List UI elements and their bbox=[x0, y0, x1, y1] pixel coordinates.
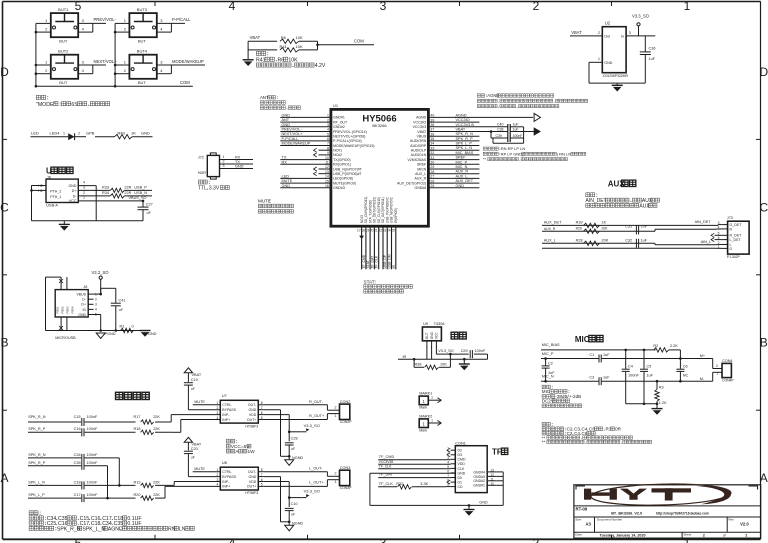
svg-text:C40: C40 bbox=[497, 123, 503, 127]
svg-text:XC6206P332MR: XC6206P332MR bbox=[603, 74, 629, 78]
svg-text:1uF: 1uF bbox=[548, 371, 555, 375]
wire BUT4 pins bbox=[115, 64, 129, 66]
logo HYT swoosh bbox=[591, 482, 731, 506]
svg-text:22K: 22K bbox=[153, 427, 160, 431]
svg-text:R33: R33 bbox=[102, 185, 109, 189]
svg-text:ANT: ANT bbox=[282, 118, 290, 122]
resistor R29 bbox=[584, 229, 600, 233]
svg-text:Document Number: Document Number bbox=[597, 517, 622, 521]
svg-text:R: R bbox=[730, 227, 733, 231]
svg-text:7: 7 bbox=[261, 473, 263, 477]
svg-text:http://shop792402716.taobao.co: http://shop792402716.taobao.com bbox=[656, 511, 709, 515]
wire MIC_N row bbox=[541, 380, 599, 382]
svg-text:1uF: 1uF bbox=[641, 224, 648, 228]
svg-text:VCC3IO: VCC3IO bbox=[413, 120, 426, 124]
svg-text:RT-09: RT-09 bbox=[576, 507, 588, 512]
svg-text:AGND: AGND bbox=[456, 113, 467, 117]
wire j73 connections bbox=[715, 224, 719, 226]
resistor R6 bbox=[280, 39, 299, 43]
wire VBAT to C38 and speaker arrow bbox=[428, 131, 507, 133]
svg-text:GND#2: GND#2 bbox=[473, 479, 485, 483]
capacitor C31 bbox=[635, 225, 637, 234]
svg-text:TX(GPIO0): TX(GPIO0) bbox=[333, 158, 351, 162]
svg-text:VDD: VDD bbox=[249, 413, 257, 417]
svg-text:BUT3: BUT3 bbox=[137, 7, 148, 12]
svg-text:1uF: 1uF bbox=[603, 353, 610, 357]
svg-text:VCC3V3 B: VCC3V3 B bbox=[456, 123, 475, 127]
svg-text:1: 1 bbox=[63, 132, 65, 136]
svg-text:100nF: 100nF bbox=[87, 461, 98, 465]
svg-text:GPB: GPB bbox=[86, 131, 95, 136]
resistor R3 vertical bbox=[656, 381, 658, 389]
svg-text:BUT: BUT bbox=[59, 80, 68, 85]
svg-text:SPK_L_N: SPK_L_N bbox=[82, 526, 105, 532]
wire VCC3IO bbox=[428, 121, 479, 123]
svg-text:INP-: INP- bbox=[222, 480, 230, 484]
svg-text:V3.3_SO: V3.3_SO bbox=[304, 423, 320, 428]
svg-text:R29: R29 bbox=[576, 227, 582, 231]
svg-text:CD: CD bbox=[458, 485, 464, 489]
svg-text:AGND: AGND bbox=[416, 116, 427, 120]
svg-text:CTRL: CTRL bbox=[222, 403, 231, 407]
svg-text:MODE/WAKEUP: MODE/WAKEUP bbox=[172, 59, 204, 64]
svg-text:10K: 10K bbox=[440, 362, 447, 366]
svg-text:G: G bbox=[730, 247, 733, 251]
svg-text:3.3V: 3.3V bbox=[209, 186, 220, 192]
svg-text:GND: GND bbox=[458, 471, 466, 475]
svg-text:J8: J8 bbox=[83, 285, 87, 289]
svg-text:22K: 22K bbox=[153, 415, 160, 419]
svg-text:C39: C39 bbox=[496, 134, 502, 138]
svg-text:5: 5 bbox=[261, 416, 263, 420]
svg-text:SPK_L_N: SPK_L_N bbox=[456, 146, 473, 150]
wire COM junction bbox=[317, 41, 319, 50]
svg-text:VBUS: VBUS bbox=[417, 135, 427, 139]
svg-text:BUT: BUT bbox=[138, 80, 147, 85]
power VBAT U8 bbox=[184, 437, 192, 442]
svg-text:AUX_R: AUX_R bbox=[456, 170, 469, 174]
svg-text:PREV/VOL-: PREV/VOL- bbox=[94, 17, 117, 22]
note speaker config bbox=[29, 511, 33, 515]
svg-text:GND#2: GND#2 bbox=[333, 125, 345, 129]
resistor R39 bbox=[584, 223, 600, 227]
svg-text:A3: A3 bbox=[586, 522, 592, 527]
svg-text:uF: uF bbox=[191, 455, 195, 459]
svg-text:A: A bbox=[760, 471, 768, 485]
svg-text:RF_OUT: RF_OUT bbox=[333, 120, 348, 124]
svg-text:VBAT: VBAT bbox=[192, 373, 202, 377]
svg-text:16: 16 bbox=[325, 184, 329, 188]
svg-text:8: 8 bbox=[261, 468, 263, 472]
svg-text:B: B bbox=[760, 336, 768, 350]
svg-text:1: 1 bbox=[335, 480, 337, 484]
svg-text:GND#1: GND#1 bbox=[473, 484, 485, 488]
svg-text:22R: 22R bbox=[124, 185, 131, 189]
svg-text:1uF: 1uF bbox=[513, 127, 519, 131]
svg-text:MIC: MIC bbox=[542, 389, 551, 394]
pushbutton BUT4 bbox=[129, 55, 156, 79]
ground U2 bbox=[616, 83, 618, 85]
svg-text:USB_N(GPIO7)#T: USB_N(GPIO7)#T bbox=[333, 167, 363, 171]
svg-text:6: 6 bbox=[261, 411, 263, 415]
note MIC impedance bbox=[542, 385, 546, 389]
svg-text:19: 19 bbox=[366, 229, 370, 233]
svg-text:D+: D+ bbox=[81, 303, 86, 307]
capacitor C3 bbox=[598, 377, 600, 385]
svg-text:C29: C29 bbox=[461, 349, 468, 353]
svg-text:4: 4 bbox=[83, 181, 85, 185]
svg-text:VBUS: VBUS bbox=[76, 293, 86, 297]
title block frame bbox=[574, 485, 761, 538]
svg-text:uF: uF bbox=[291, 512, 295, 516]
svg-text:4: 4 bbox=[229, 0, 236, 13]
svg-text:12: 12 bbox=[490, 473, 494, 477]
svg-text:MODE/WAKEUP: MODE/WAKEUP bbox=[282, 142, 311, 146]
svg-text:BK3266: BK3266 bbox=[372, 123, 387, 128]
svg-text:4: 4 bbox=[229, 536, 236, 543]
svg-text:BYPASS: BYPASS bbox=[222, 475, 236, 479]
wire U8 OUT- to L_OUT- bbox=[264, 471, 328, 473]
svg-text:D0: D0 bbox=[458, 476, 463, 480]
svg-text:LED: LED bbox=[31, 131, 39, 136]
svg-text:3: 3 bbox=[95, 303, 97, 307]
svg-text:22R: 22R bbox=[124, 191, 131, 195]
svg-text:TX: TX bbox=[235, 160, 240, 164]
svg-text:NEXT/VOL+: NEXT/VOL+ bbox=[94, 59, 118, 64]
svg-text:AUDIOLP: AUDIOLP bbox=[411, 149, 427, 153]
wire button bus 1 bbox=[35, 23, 37, 86]
svg-text:GND: GND bbox=[282, 184, 291, 188]
svg-text:4: 4 bbox=[447, 460, 449, 464]
svg-text:AUX_DET: AUX_DET bbox=[456, 179, 474, 183]
capacitor C40 bbox=[507, 124, 509, 142]
svg-text:C16: C16 bbox=[74, 427, 81, 431]
svg-text:BYPASS: BYPASS bbox=[222, 408, 236, 412]
note TTL level bbox=[198, 180, 202, 184]
svg-text:P$04: P$04 bbox=[71, 306, 75, 313]
svg-text:C15: C15 bbox=[74, 415, 81, 419]
wire VCC3V3 B to C40 bbox=[428, 126, 507, 128]
svg-text:2: 2 bbox=[95, 297, 97, 301]
svg-text:BT_BK3266_V2.0: BT_BK3266_V2.0 bbox=[611, 511, 642, 515]
wire U7 OUT+ to R_OUT+ bbox=[264, 419, 328, 421]
svg-text:CON3P: CON3P bbox=[340, 486, 352, 490]
svg-text:R41: R41 bbox=[256, 57, 266, 63]
wire IR signal row bbox=[398, 358, 488, 360]
svg-text:uF: uF bbox=[147, 211, 152, 215]
capacitor C15 bbox=[81, 418, 83, 426]
svg-text:AUDIORP: AUDIORP bbox=[410, 144, 427, 148]
svg-text:MODE/WAKEUP(GPIO15): MODE/WAKEUP(GPIO15) bbox=[333, 144, 375, 148]
pushbutton BUT1 bbox=[51, 13, 78, 37]
svg-text:PREV/VOL-(GPIO14): PREV/VOL-(GPIO14) bbox=[333, 130, 367, 134]
svg-text:IR(GPIO5): IR(GPIO5) bbox=[394, 208, 398, 223]
svg-text:U9: U9 bbox=[423, 322, 428, 326]
svg-text:LED4: LED4 bbox=[50, 131, 61, 136]
svg-text:**: ** bbox=[483, 157, 487, 162]
svg-text:GND#1: GND#1 bbox=[333, 116, 345, 120]
svg-text:Date:: Date: bbox=[575, 533, 582, 537]
svg-text:TF: TF bbox=[492, 448, 502, 457]
svg-text:AUX_R: AUX_R bbox=[544, 227, 556, 231]
svg-text:GND#4: GND#4 bbox=[473, 470, 485, 474]
svg-text:R_OUT-: R_OUT- bbox=[309, 400, 324, 404]
svg-text:M-: M- bbox=[700, 377, 705, 381]
svg-text:20: 20 bbox=[370, 229, 374, 233]
svg-text:25: 25 bbox=[430, 184, 434, 188]
svg-text:MIC_N: MIC_N bbox=[542, 375, 554, 379]
svg-text:7: 7 bbox=[261, 406, 263, 410]
note differential output bbox=[483, 147, 486, 150]
ground GND microusb bbox=[140, 330, 151, 332]
svg-text:CTRL: CTRL bbox=[222, 470, 231, 474]
svg-text:2: 2 bbox=[223, 160, 225, 164]
svg-text:NC: NC bbox=[683, 374, 689, 378]
wire U7 VDD down bbox=[264, 414, 289, 416]
resistor R40 bbox=[115, 135, 133, 139]
svg-text:R6: R6 bbox=[278, 57, 285, 63]
svg-text:AUX_DET: AUX_DET bbox=[544, 220, 562, 224]
svg-text:TF_CLK: TF_CLK bbox=[379, 465, 392, 469]
svg-text:VDD: VDD bbox=[458, 462, 466, 466]
wire TF gnd loop bbox=[370, 472, 455, 474]
svg-text:MUTE: MUTE bbox=[282, 179, 293, 183]
note MODE key bbox=[36, 95, 40, 99]
svg-text:HT98F3: HT98F3 bbox=[245, 424, 258, 428]
svg-text:SREF: SREF bbox=[417, 163, 426, 167]
svg-text:R34: R34 bbox=[102, 191, 109, 195]
svg-text:C36: C36 bbox=[649, 47, 656, 51]
svg-text:P$01: P$01 bbox=[56, 306, 60, 313]
svg-text:COM: COM bbox=[354, 39, 364, 44]
svg-text:R41: R41 bbox=[280, 44, 288, 49]
wire U8 VDD down bbox=[264, 481, 289, 483]
svg-text:-38dB/+-2dB: -38dB/+-2dB bbox=[555, 394, 581, 399]
svg-text:C34: C34 bbox=[74, 453, 81, 457]
svg-text:C2: C2 bbox=[548, 362, 553, 366]
svg-text:CLK: CLK bbox=[458, 467, 465, 471]
svg-text:USB_N: USB_N bbox=[134, 191, 147, 195]
wire LED row bbox=[31, 136, 69, 138]
svg-text:2: 2 bbox=[78, 132, 80, 136]
svg-text:C28: C28 bbox=[291, 437, 298, 441]
svg-text:TX: TX bbox=[282, 156, 287, 160]
svg-text:U7: U7 bbox=[222, 393, 228, 398]
svg-text:SPK_R_P: SPK_R_P bbox=[28, 427, 46, 431]
svg-text:OUT-: OUT- bbox=[248, 403, 257, 407]
svg-text:MUTE: MUTE bbox=[194, 400, 205, 404]
svg-text:U8: U8 bbox=[222, 460, 228, 465]
svg-text:D3: D3 bbox=[458, 453, 463, 457]
resistor R34 bbox=[110, 194, 124, 198]
svg-text:VBUS_SO: VBUS_SO bbox=[129, 196, 147, 200]
svg-text:LN: LN bbox=[179, 526, 186, 532]
svg-text:NEXT/VOL+(GPIO8): NEXT/VOL+(GPIO8) bbox=[333, 135, 365, 139]
svg-text:13: 13 bbox=[490, 468, 494, 472]
wire TF gnd right vertical bbox=[502, 472, 504, 506]
svg-text:C6: C6 bbox=[683, 364, 688, 368]
svg-text:8: 8 bbox=[261, 401, 263, 405]
wire U7 GND down bbox=[264, 409, 281, 411]
wire U2 out bbox=[626, 35, 655, 37]
resistor R38 loop bbox=[413, 359, 415, 367]
svg-text:INP+: INP+ bbox=[222, 485, 230, 489]
svg-text:GND: GND bbox=[479, 501, 488, 505]
resistor R41 bbox=[248, 49, 277, 51]
svg-text:R32: R32 bbox=[396, 482, 403, 486]
svg-text:MIC_BIAS: MIC_BIAS bbox=[456, 151, 474, 155]
svg-text:RN: RN bbox=[168, 526, 176, 532]
svg-text:25: 25 bbox=[391, 229, 395, 233]
svg-text:VBAT: VBAT bbox=[250, 35, 261, 40]
svg-text:R18: R18 bbox=[134, 427, 141, 431]
svg-text:RX: RX bbox=[282, 160, 288, 164]
svg-text:MIC_P: MIC_P bbox=[456, 160, 468, 164]
wire j72 pins bbox=[220, 159, 254, 161]
svg-text:R28: R28 bbox=[576, 238, 583, 242]
note AUX bbox=[586, 193, 590, 197]
svg-text:MUTE: MUTE bbox=[258, 199, 271, 204]
svg-text:USB_P: USB_P bbox=[134, 185, 147, 189]
svg-text:1uF: 1uF bbox=[646, 374, 653, 378]
svg-text:"MODE": "MODE" bbox=[36, 102, 55, 108]
wire to GND label bbox=[132, 136, 152, 138]
svg-text:U1: U1 bbox=[333, 103, 339, 108]
svg-text:USB-A: USB-A bbox=[46, 204, 58, 208]
wire R17 to INP- bbox=[170, 415, 172, 422]
svg-text:IR: IR bbox=[403, 355, 407, 359]
svg-text:Mark: Mark bbox=[419, 406, 427, 410]
svg-text:GND: GND bbox=[78, 313, 86, 317]
wire microusb gnd bbox=[94, 314, 101, 316]
svg-text:PTH_2: PTH_2 bbox=[50, 189, 61, 193]
svg-text:2: 2 bbox=[83, 191, 85, 195]
regulator U2 bbox=[602, 27, 626, 73]
svg-text:20K: 20K bbox=[602, 238, 609, 242]
svg-text:24: 24 bbox=[387, 229, 391, 233]
svg-text:BUT1: BUT1 bbox=[58, 7, 69, 12]
svg-text:C32: C32 bbox=[625, 238, 632, 242]
svg-text:C31: C31 bbox=[625, 224, 632, 228]
wire VBAT row bbox=[248, 40, 277, 42]
svg-text:1: 1 bbox=[223, 155, 225, 159]
svg-text:MUTE(GPIO9): MUTE(GPIO9) bbox=[333, 181, 356, 185]
note U8 power bbox=[226, 439, 230, 443]
svg-text:ID: ID bbox=[83, 308, 87, 312]
pushbutton BUT2 bbox=[51, 55, 78, 79]
resistor R28 bbox=[584, 241, 600, 245]
svg-text:AUDIORN: AUDIORN bbox=[410, 139, 427, 143]
resistor R2 bbox=[654, 348, 669, 352]
ground mic bbox=[652, 408, 663, 410]
wire gnd rail microusb bbox=[46, 330, 146, 332]
svg-text:MIC: MIC bbox=[575, 335, 590, 344]
svg-text:1W: 1W bbox=[248, 449, 256, 455]
svg-text:CON2P: CON2P bbox=[340, 420, 352, 424]
svg-text:R17: R17 bbox=[134, 415, 141, 419]
ground NGND con3 bbox=[285, 525, 294, 531]
wire AUX_L row bbox=[542, 242, 655, 244]
svg-text:VDD: VDD bbox=[249, 480, 257, 484]
capacitor C29 bbox=[469, 350, 471, 358]
svg-text:TF_CMD: TF_CMD bbox=[379, 455, 395, 459]
capacitor C36 bbox=[644, 36, 646, 52]
svg-text:SPK_R_P: SPK_R_P bbox=[28, 461, 46, 465]
svg-text:GND: GND bbox=[282, 113, 291, 117]
svg-text:AUX_L: AUX_L bbox=[415, 172, 426, 176]
svg-text:BUT2: BUT2 bbox=[58, 49, 69, 54]
title IR bbox=[451, 332, 458, 339]
svg-text:SPK_L_N: SPK_L_N bbox=[28, 480, 45, 484]
svg-text:uF: uF bbox=[191, 387, 195, 391]
svg-text:Size: Size bbox=[575, 517, 581, 521]
svg-text:100nF: 100nF bbox=[475, 349, 486, 353]
capacitor C6 vertical bbox=[679, 359, 681, 369]
svg-text:2: 2 bbox=[716, 364, 718, 368]
ground IR bbox=[463, 359, 465, 364]
svg-text:MICROUSB: MICROUSB bbox=[55, 336, 76, 340]
svg-text:AIN_L: AIN_L bbox=[701, 240, 712, 244]
svg-text:1: 1 bbox=[431, 396, 433, 400]
wire C34 C35 jumpers bbox=[118, 458, 120, 486]
resistor R17 bbox=[141, 420, 154, 424]
svg-text:GND: GND bbox=[141, 131, 150, 136]
svg-text:Out: Out bbox=[604, 34, 610, 38]
svg-text:C17: C17 bbox=[74, 493, 81, 497]
capacitor C20 bbox=[184, 450, 193, 452]
svg-text:2.2K: 2.2K bbox=[670, 344, 678, 348]
svg-text:C: C bbox=[0, 200, 9, 214]
svg-text:AUX_L: AUX_L bbox=[544, 238, 556, 242]
svg-text:V3.3_SO: V3.3_SO bbox=[438, 349, 453, 353]
svg-text:22K: 22K bbox=[153, 480, 160, 484]
svg-text:PJ-342P: PJ-342P bbox=[727, 255, 741, 259]
wire VBAT to U2 bbox=[570, 35, 602, 37]
svg-text:AUX_DET(GPIO2): AUX_DET(GPIO2) bbox=[397, 181, 426, 185]
wire BUT2 pins bbox=[36, 64, 51, 66]
svg-text:NC#1: NC#1 bbox=[333, 149, 342, 153]
svg-text:AIN_DET: AIN_DET bbox=[695, 220, 712, 224]
svg-text:GND: GND bbox=[604, 61, 612, 65]
svg-text:100nF: 100nF bbox=[87, 453, 98, 457]
svg-text:CON4: CON4 bbox=[722, 359, 733, 363]
svg-text:COM: COM bbox=[180, 80, 190, 85]
svg-text:D: D bbox=[759, 65, 768, 79]
svg-text:1uF: 1uF bbox=[649, 57, 656, 61]
wire button bus 2 bbox=[114, 23, 116, 86]
svg-text:C3: C3 bbox=[589, 376, 594, 380]
svg-text:C41: C41 bbox=[119, 299, 126, 303]
svg-text:3: 3 bbox=[223, 164, 225, 168]
svg-text:VCC3V3B: VCC3V3B bbox=[379, 460, 394, 464]
svg-text:C5: C5 bbox=[646, 364, 651, 368]
svg-text:BUT: BUT bbox=[59, 39, 68, 44]
note AGND bbox=[477, 94, 480, 97]
svg-text:**: ** bbox=[542, 440, 546, 445]
border frame bbox=[3, 1, 761, 3]
ground NGND con2 bbox=[285, 460, 294, 466]
svg-text:NGND: NGND bbox=[292, 456, 303, 460]
svg-text:Tuesday, January 14, 2020: Tuesday, January 14, 2020 bbox=[600, 533, 646, 537]
svg-text:TF_CLK: TF_CLK bbox=[379, 482, 394, 486]
zone bracket right bbox=[749, 486, 758, 490]
svg-text:RX: RX bbox=[235, 155, 241, 159]
svg-text:NC#2: NC#2 bbox=[333, 153, 342, 157]
svg-text:1: 1 bbox=[335, 414, 337, 418]
svg-text:1uF: 1uF bbox=[603, 376, 610, 380]
svg-text:100nF: 100nF bbox=[87, 480, 98, 484]
wire IR pins down bbox=[426, 344, 428, 359]
